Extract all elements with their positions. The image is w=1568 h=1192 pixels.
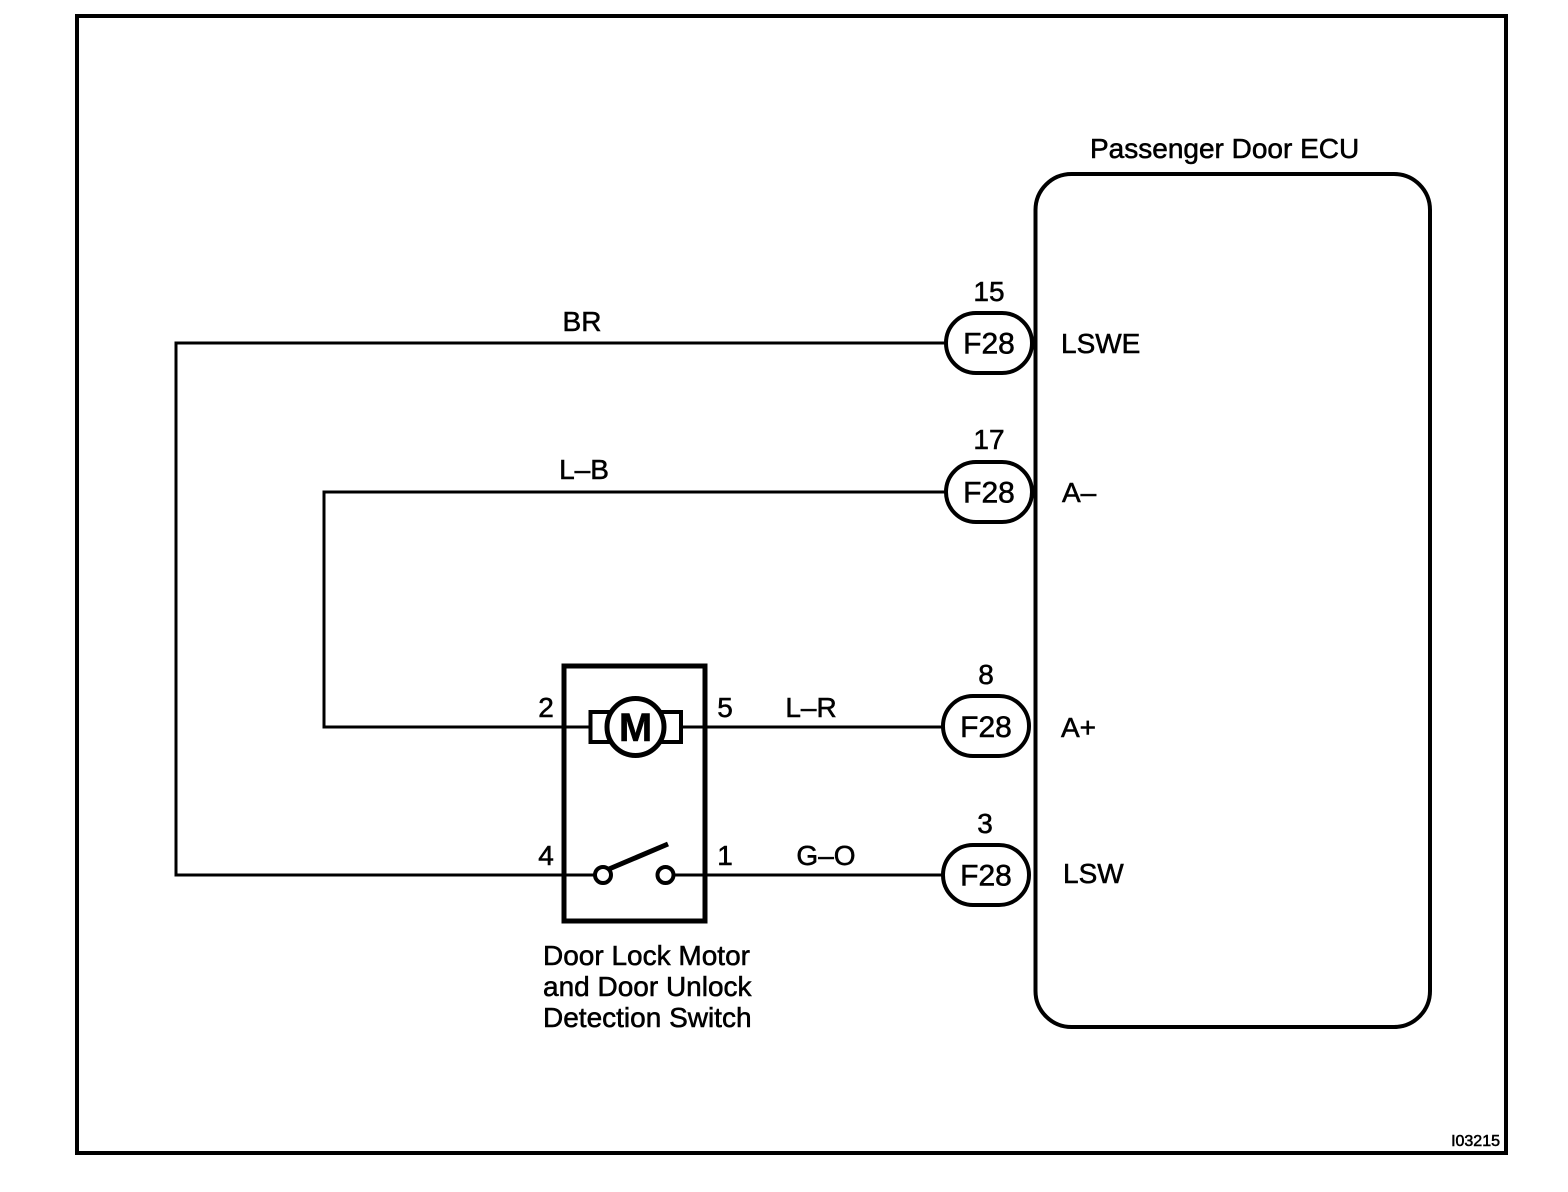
wire BR (pin 15 net) bbox=[176, 343, 946, 875]
svg-text:4: 4 bbox=[538, 840, 554, 871]
svg-text:Detection Switch: Detection Switch bbox=[543, 1002, 752, 1033]
svg-text:F28: F28 bbox=[963, 328, 1015, 361]
connector F28 pin 8 bbox=[943, 659, 1029, 756]
svg-text:BR: BR bbox=[563, 306, 602, 337]
svg-text:A+: A+ bbox=[1061, 712, 1096, 743]
wire L-R (motor pin 5 to F28 pin 8) bbox=[660, 726, 943, 729]
svg-text:LSW: LSW bbox=[1063, 858, 1124, 889]
motor M1 (door lock motor) bbox=[591, 699, 682, 756]
svg-text:Passenger Door ECU: Passenger Door ECU bbox=[1090, 133, 1359, 164]
svg-text:17: 17 bbox=[973, 424, 1004, 455]
svg-text:2: 2 bbox=[538, 692, 554, 723]
connector F28 pin 17 bbox=[946, 424, 1032, 522]
svg-text:15: 15 bbox=[973, 276, 1004, 307]
ECU U1 (Passenger Door ECU box) bbox=[1036, 174, 1431, 1027]
svg-text:LSWE: LSWE bbox=[1061, 328, 1140, 359]
connector F28 pin 3 bbox=[943, 808, 1029, 905]
wire L-B (pin 17 net) bbox=[324, 492, 946, 727]
svg-text:L–R: L–R bbox=[785, 692, 836, 723]
svg-text:F28: F28 bbox=[960, 860, 1012, 893]
svg-text:I03215: I03215 bbox=[1451, 1133, 1500, 1150]
svg-text:and Door Unlock: and Door Unlock bbox=[543, 971, 753, 1002]
svg-text:Door Lock Motor: Door Lock Motor bbox=[543, 940, 750, 971]
svg-text:G–O: G–O bbox=[796, 840, 855, 871]
svg-text:5: 5 bbox=[717, 692, 733, 723]
connector F28 pin 15 bbox=[946, 276, 1032, 373]
wire G-O (switch pin 1 to F28 pin 3) bbox=[660, 874, 943, 877]
Door Lock Motor and Door Unlock Detection Switch box bbox=[564, 666, 705, 921]
svg-text:3: 3 bbox=[977, 808, 993, 839]
svg-text:8: 8 bbox=[978, 659, 994, 690]
svg-text:L–B: L–B bbox=[559, 454, 609, 485]
svg-text:1: 1 bbox=[717, 840, 733, 871]
switch SW1 (door unlock detection switch) bbox=[595, 844, 674, 883]
label Door Lock Motor and Door Unlock Detection Switch bbox=[543, 940, 753, 1033]
svg-text:F28: F28 bbox=[963, 477, 1015, 510]
svg-text:F28: F28 bbox=[960, 711, 1012, 744]
svg-text:A–: A– bbox=[1062, 477, 1097, 508]
svg-text:M: M bbox=[619, 706, 652, 750]
